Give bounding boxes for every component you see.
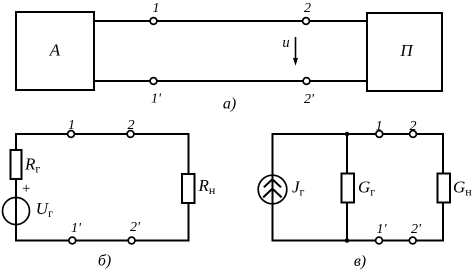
conductance Gг bbox=[342, 174, 355, 203]
node 2 bbox=[303, 18, 310, 25]
node 1 bbox=[150, 18, 157, 25]
svg-text:1: 1 bbox=[68, 118, 75, 133]
svg-text:2: 2 bbox=[410, 119, 417, 134]
svg-text:2': 2' bbox=[130, 220, 141, 235]
node 1' (в) bbox=[376, 237, 383, 244]
resistor Rг bbox=[11, 150, 22, 179]
svg-text:1: 1 bbox=[376, 119, 383, 134]
node 1' bbox=[150, 78, 157, 85]
svg-text:2': 2' bbox=[304, 92, 315, 107]
svg-text:+: + bbox=[21, 181, 31, 197]
circuit в loop wire bbox=[273, 134, 444, 241]
svg-text:1': 1' bbox=[71, 221, 82, 236]
junction bottom (в) bbox=[345, 238, 350, 243]
node 2 (б) bbox=[127, 131, 134, 138]
wire top (A to П) bbox=[95, 20, 366, 22]
block П (load network) bbox=[367, 13, 442, 91]
svg-text:в): в) bbox=[354, 253, 366, 270]
node 1 (в) bbox=[376, 131, 383, 138]
wire middle branch (в) bbox=[346, 134, 348, 241]
node 2' (в) bbox=[409, 237, 416, 244]
voltage u arrow bbox=[293, 37, 298, 66]
svg-text:П: П bbox=[399, 41, 414, 60]
svg-text:1: 1 bbox=[153, 1, 160, 16]
node 2' (б) bbox=[128, 237, 135, 244]
svg-text:2': 2' bbox=[411, 222, 422, 237]
resistor Rн bbox=[182, 174, 195, 203]
svg-text:1': 1' bbox=[151, 92, 162, 107]
node 1' (б) bbox=[69, 237, 76, 244]
svg-text:2: 2 bbox=[304, 1, 311, 16]
svg-text:u: u bbox=[282, 35, 289, 51]
node 1 (б) bbox=[68, 131, 75, 138]
junction top (в) bbox=[345, 132, 350, 137]
node 2' bbox=[303, 78, 310, 85]
block A (active two-terminal network) bbox=[16, 12, 94, 90]
circuit б loop wire bbox=[16, 134, 189, 241]
wire bottom (A to П) bbox=[95, 80, 366, 82]
svg-text:2: 2 bbox=[128, 118, 135, 133]
current source Jг bbox=[258, 175, 287, 204]
svg-text:а): а) bbox=[223, 96, 236, 113]
svg-text:1': 1' bbox=[377, 222, 388, 237]
conductance Gн bbox=[438, 174, 451, 203]
node 2 (в) bbox=[410, 131, 417, 138]
svg-text:б): б) bbox=[98, 253, 111, 270]
svg-text:А: А bbox=[49, 41, 61, 60]
voltage source Uг bbox=[3, 198, 30, 225]
